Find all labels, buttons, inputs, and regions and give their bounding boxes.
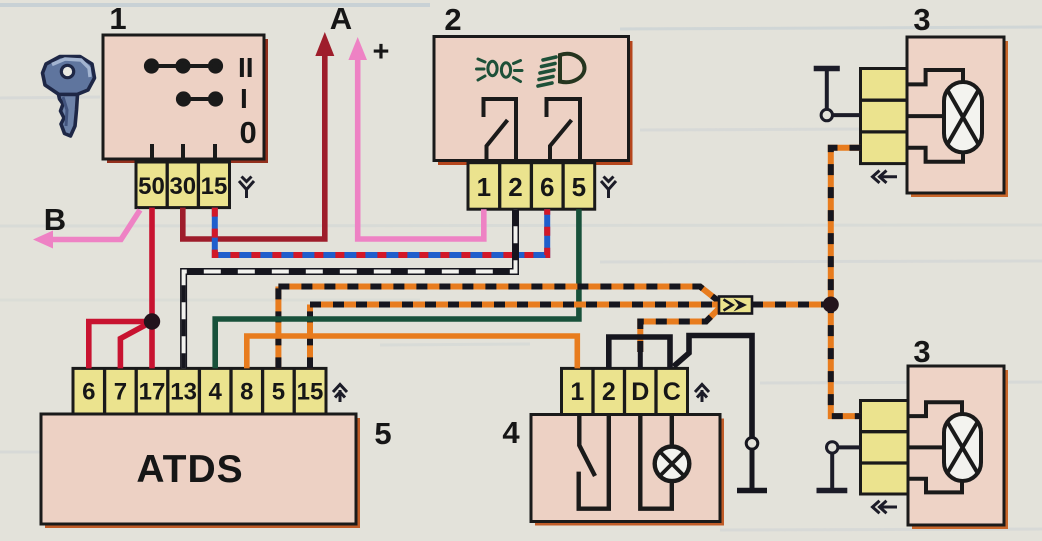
svg-text:5: 5 bbox=[272, 379, 285, 406]
component 1 box (ignition switch) bbox=[103, 35, 268, 163]
lamp 3 bottom chevron symbol bbox=[873, 501, 898, 513]
black wire comp4 pinC to ground net bbox=[674, 336, 753, 438]
ignition key icon bbox=[43, 57, 95, 137]
svg-text:2: 2 bbox=[602, 378, 616, 406]
contact row I bbox=[178, 93, 221, 104]
lamp 3 top bulb bbox=[944, 82, 982, 152]
parking lights icon bbox=[477, 59, 523, 82]
wire orange-black junction to lamps bbox=[831, 148, 861, 416]
svg-text:30: 30 bbox=[169, 173, 196, 200]
svg-text:7: 7 bbox=[114, 379, 127, 406]
svg-text:4: 4 bbox=[209, 379, 223, 406]
lamp 3 bottom terminal strip bbox=[861, 401, 909, 495]
svg-text:3: 3 bbox=[913, 2, 930, 37]
svg-text:50: 50 bbox=[138, 173, 165, 200]
connector symbol comp1 bbox=[239, 177, 254, 199]
wire red branch to pin6 bbox=[89, 322, 152, 369]
wire blue-red pin15 to comp2 pin6 bbox=[215, 208, 547, 255]
wire orange-black bus ATDS pin15 to connector bbox=[310, 302, 719, 308]
comp4 switch symbol bbox=[579, 415, 609, 509]
lamp 3 top chevron symbol bbox=[873, 171, 898, 183]
black stub into comp4 pinD bbox=[638, 350, 643, 368]
svg-text:8: 8 bbox=[240, 379, 253, 406]
svg-text:+: + bbox=[373, 36, 390, 68]
svg-text:5: 5 bbox=[374, 416, 391, 451]
svg-text:13: 13 bbox=[170, 379, 197, 406]
svg-text:ATDS: ATDS bbox=[136, 448, 243, 491]
wire dark red pin30 to A bbox=[183, 52, 325, 239]
wire orange-black bus ATDS pin5 to connector bbox=[278, 287, 719, 302]
ATDS terminal strip 6 7 17 13 4 8 5 15 bbox=[73, 368, 326, 414]
wire B pink to battery bbox=[46, 210, 140, 240]
wire green comp2 pin5 to ATDS pin4 bbox=[215, 209, 579, 368]
svg-text:6: 6 bbox=[540, 172, 554, 202]
svg-text:1: 1 bbox=[477, 172, 491, 202]
terminal strip 1 2 6 5 bbox=[468, 163, 595, 210]
wire black-white comp2 pin2 to ATDS pin13 bbox=[184, 209, 516, 368]
comp4 terminal strip 1 2 D C bbox=[562, 368, 688, 414]
comp4 lamp symbol bbox=[640, 415, 689, 509]
wire orange-black connector to junction bbox=[752, 302, 831, 308]
ATDS unit box U5 bbox=[41, 414, 360, 528]
lamp 3 top internal wiring bbox=[907, 70, 963, 162]
lamp 3 top box bbox=[907, 37, 1008, 197]
svg-text:C: C bbox=[663, 378, 681, 406]
wire orange-black comp4 pinD to connector bbox=[640, 309, 719, 353]
ground connection circle comp4 bbox=[746, 438, 758, 450]
svg-text:D: D bbox=[631, 378, 649, 406]
component 2 box (light switch) bbox=[434, 37, 633, 166]
junction orange wires bbox=[823, 297, 839, 313]
svg-text:15: 15 bbox=[297, 379, 324, 406]
wire red branch to pin7 bbox=[120, 322, 152, 369]
terminal strip 50 30 15 bbox=[136, 162, 230, 208]
ground symbol comp4 bbox=[737, 449, 767, 490]
wire orange ATDS pin8 to comp4 pin1 bbox=[247, 336, 578, 368]
lamp 3 bottom internal wiring bbox=[908, 402, 962, 492]
wire red pin50 to junction to pin17 bbox=[149, 208, 155, 369]
svg-text:I: I bbox=[240, 83, 248, 114]
connector symbol ATDS bbox=[333, 385, 347, 403]
contact row II bbox=[146, 60, 221, 71]
pin stubs of component 1 bbox=[152, 144, 215, 161]
junction red wires bbox=[144, 313, 160, 329]
lamp 3 top ground bbox=[814, 69, 861, 121]
svg-text:15: 15 bbox=[201, 173, 228, 200]
svg-text:0: 0 bbox=[240, 115, 257, 150]
svg-text:B: B bbox=[44, 202, 66, 237]
lamp 3 top terminal strip bbox=[861, 69, 908, 164]
svg-text:A: A bbox=[330, 1, 352, 36]
connector XP yellow bbox=[719, 297, 752, 314]
svg-text:17: 17 bbox=[139, 379, 166, 406]
svg-text:4: 4 bbox=[502, 415, 520, 450]
svg-text:3: 3 bbox=[913, 334, 930, 369]
component 4 box (hazard switch) bbox=[531, 415, 724, 526]
switch symbol pins 1-2 bbox=[484, 99, 517, 161]
svg-text:2: 2 bbox=[444, 2, 461, 37]
headlight icon bbox=[538, 54, 585, 86]
wire orange-black vertical ATDS pin5 bbox=[275, 287, 281, 369]
svg-text:6: 6 bbox=[82, 379, 95, 406]
arrowhead plus bbox=[348, 37, 367, 60]
arrowhead B bbox=[33, 231, 53, 249]
svg-text:1: 1 bbox=[570, 378, 584, 406]
svg-text:2: 2 bbox=[508, 172, 522, 202]
arrowhead A bbox=[315, 32, 334, 56]
connector symbol comp2 bbox=[601, 177, 616, 199]
switch symbol pins 6-5 bbox=[547, 99, 581, 161]
lamp 3 bottom bulb bbox=[944, 414, 981, 481]
lamp 3 bottom ground bbox=[817, 442, 861, 491]
lamp 3 bottom box bbox=[908, 366, 1008, 529]
wire orange-black vertical ATDS pin15 bbox=[307, 305, 313, 369]
svg-text:II: II bbox=[238, 52, 254, 83]
connector symbol comp4 bbox=[695, 385, 709, 403]
black jumper comp4 pin2 to pinC bbox=[609, 337, 670, 368]
wire pink comp2 pin1 to plus bbox=[358, 56, 484, 239]
svg-text:1: 1 bbox=[109, 1, 126, 36]
svg-text:5: 5 bbox=[572, 172, 586, 202]
